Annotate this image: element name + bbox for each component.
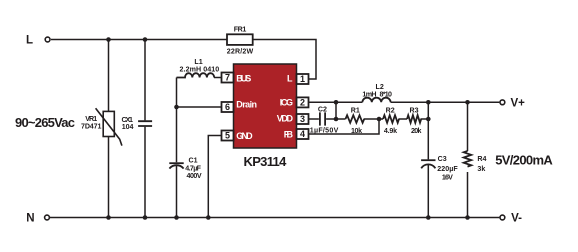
- svg-text:C2: C2: [318, 105, 327, 113]
- svg-text:V-: V-: [511, 213, 522, 225]
- svg-text:KP3114: KP3114: [244, 154, 288, 169]
- svg-text:1µF/50V: 1µF/50V: [310, 126, 339, 134]
- svg-text:C1: C1: [189, 157, 198, 165]
- svg-text:V+: V+: [511, 98, 526, 110]
- svg-text:FB: FB: [284, 129, 294, 139]
- svg-text:BUS: BUS: [236, 73, 251, 83]
- svg-text:R3: R3: [410, 107, 419, 115]
- svg-text:16V: 16V: [442, 173, 453, 181]
- svg-text:FR1: FR1: [234, 26, 247, 34]
- svg-text:N: N: [26, 212, 34, 224]
- svg-text:GND: GND: [236, 131, 253, 141]
- svg-text:1mH: 1mH: [362, 91, 376, 99]
- svg-text:10k: 10k: [351, 127, 362, 135]
- svg-text:3k: 3k: [477, 165, 485, 173]
- svg-text:220µF: 220µF: [437, 165, 458, 173]
- svg-text:1: 1: [300, 74, 305, 84]
- svg-text:2: 2: [300, 97, 305, 107]
- svg-text:L: L: [26, 34, 33, 46]
- svg-text:6: 6: [225, 102, 230, 112]
- svg-text:4.9k: 4.9k: [384, 127, 397, 135]
- svg-text:C3: C3: [438, 155, 447, 163]
- svg-text:VDD: VDD: [277, 113, 294, 123]
- svg-text:ICG: ICG: [280, 98, 293, 108]
- svg-text:3: 3: [300, 114, 305, 124]
- svg-text:R4: R4: [477, 155, 486, 163]
- svg-text:90~265Vac: 90~265Vac: [15, 115, 75, 130]
- svg-text:5V/200mA: 5V/200mA: [495, 152, 553, 167]
- svg-text:5: 5: [225, 131, 230, 141]
- svg-text:400V: 400V: [187, 172, 202, 180]
- svg-text:104: 104: [122, 123, 134, 131]
- svg-text:L: L: [287, 73, 293, 83]
- svg-text:2.2mH 0410: 2.2mH 0410: [180, 65, 220, 73]
- svg-text:Drain: Drain: [236, 99, 257, 109]
- svg-text:20k: 20k: [411, 127, 421, 135]
- svg-text:R2: R2: [386, 107, 395, 115]
- svg-text:4: 4: [300, 129, 305, 139]
- svg-text:R1: R1: [351, 107, 360, 115]
- svg-text:7: 7: [225, 73, 230, 83]
- svg-text:22R/2W: 22R/2W: [227, 47, 254, 55]
- svg-text:8*10: 8*10: [380, 91, 393, 99]
- svg-text:7D471: 7D471: [81, 123, 101, 131]
